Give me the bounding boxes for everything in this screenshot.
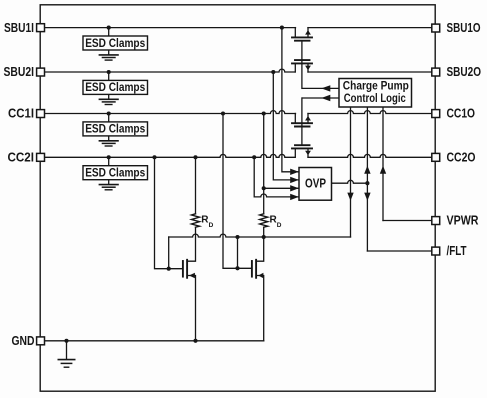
- pass FET M1 drain lead: [294, 28, 296, 38]
- ESD Clamps box 4: [83, 166, 148, 180]
- ESD clamp 4 stub: [108, 157, 110, 165]
- svg-text:CC1O: CC1O: [447, 107, 476, 121]
- ground symbol under ESD clamp 3: [99, 136, 119, 146]
- svg-text:D: D: [277, 222, 282, 229]
- wire SBU2I input (hump over vertical A): [41, 69, 296, 72]
- transistor Q1 source lead: [187, 276, 195, 341]
- wire SBU2O output: [308, 71, 431, 73]
- svg-text:ESD Clamps: ESD Clamps: [85, 166, 145, 180]
- ground symbol at GND pin: [58, 341, 76, 367]
- vertical H: charge pump / OVP output down to /FLT: [366, 107, 368, 251]
- svg-text:ESD Clamps: ESD Clamps: [85, 36, 145, 50]
- arrowhead left on CC gate drive line: [321, 95, 330, 101]
- pin SBU2O: [432, 68, 440, 76]
- arrow on Q1 source (NMOS): [189, 273, 195, 278]
- svg-text:SBU1I: SBU1I: [4, 21, 34, 35]
- vertical D: CC2I tap to OVP input 4 (hump over C): [254, 157, 299, 197]
- junction dot CC1I/vertical C: [262, 111, 266, 115]
- wire CC2O output (humps over verticals G,H,I): [308, 154, 431, 157]
- pass FET M2 channel bar: [292, 62, 312, 64]
- Q1 gate to line A vertical: [168, 237, 170, 269]
- svg-text:VPWR: VPWR: [447, 214, 479, 228]
- label RD2: [270, 214, 282, 229]
- arrow up on M3 source: [305, 116, 311, 121]
- IC boundary box: [40, 5, 435, 391]
- charge pump output line to SBU gates: [302, 87, 339, 89]
- vertical A: SBU1I tap to OVP input 1: [282, 28, 299, 172]
- ESD clamp 2 stub: [108, 72, 110, 80]
- pin CC2O: [432, 153, 440, 161]
- vertical I: VPWR up to charge pump: [382, 107, 384, 220]
- ground symbol under ESD clamp 1: [99, 50, 119, 60]
- arrowhead into OVP input 2: [290, 177, 299, 183]
- SBU gate drive vertical (M1,M2 gates to charge pump): [301, 41, 303, 89]
- svg-text:ESD Clamps: ESD Clamps: [85, 122, 145, 136]
- svg-text:ESD Clamps: ESD Clamps: [85, 80, 145, 94]
- CC gate drive vertical (charge pump to M3,M4 gates): [301, 98, 303, 145]
- pin SBU1I: [37, 24, 45, 32]
- svg-text:CC1I: CC1I: [8, 107, 34, 121]
- svg-text:SBU1O: SBU1O: [447, 21, 481, 35]
- junction dot CC1I/ESD3: [107, 111, 111, 115]
- resistor RD1 top lead from CC2I: [195, 157, 197, 214]
- wire CC1O output (humps over verticals G,H,I): [308, 111, 431, 114]
- junction dot CC2I/ESD4: [107, 155, 111, 159]
- junction dot CC2I/vertical D: [252, 155, 256, 159]
- junction dot line A / RD2: [262, 235, 266, 239]
- pass FET M4 gate bar: [295, 144, 310, 146]
- wire VPWR: [383, 220, 431, 222]
- arrowhead into OVP input 4: [290, 194, 299, 200]
- vertical E: CC2I tap to Q1 gate line: [155, 157, 183, 268]
- ground symbol under ESD clamp 2: [99, 94, 119, 104]
- pass FET M4 source lead: [307, 148, 309, 157]
- junction dot SBU1I/vertical A: [280, 26, 284, 30]
- junction dot Q2 gate line: [235, 266, 239, 270]
- junction dot Q1 gate line: [167, 267, 171, 271]
- vertical G: charge pump to pulldown node (line A): [350, 107, 352, 237]
- ground symbol under ESD clamp 4: [99, 180, 119, 190]
- pin CC2I: [37, 153, 45, 161]
- junction dot CC2I/RD1: [193, 155, 197, 159]
- vertical F: CC1I tap to Q2 gate line: [223, 114, 251, 269]
- resistor RD1 bottom lead to Q1 drain: [187, 227, 195, 261]
- svg-text:SBU2O: SBU2O: [447, 65, 482, 79]
- OVP output wire (hump over vertical G, joins vertical H): [332, 180, 368, 183]
- wire SBU1I input: [41, 27, 296, 29]
- line A: pulldown drain rail (humps over RD1 lead and vertical F): [169, 234, 351, 237]
- resistor RD1 zigzag: [192, 214, 200, 227]
- arrow down on vertical H: [364, 193, 370, 201]
- pass FET M3 source lead: [307, 114, 309, 124]
- vertical B: SBU2I tap to OVP input 2: [273, 72, 299, 180]
- pin SBU2I: [37, 68, 45, 76]
- junction dot CC1I/vertical F: [221, 111, 225, 115]
- charge pump output line to CC gates: [302, 97, 339, 99]
- junction dot CC2I/vertical E: [152, 155, 156, 159]
- vertical C: CC1I tap down to OVP input 3 and resistor RD2: [263, 114, 265, 214]
- pin VPWR: [432, 217, 440, 225]
- arrow down on M2 source: [305, 66, 311, 71]
- junction dot GND/Q1 source: [193, 339, 197, 343]
- arrowhead into OVP input 3: [290, 185, 299, 191]
- svg-text:SBU2I: SBU2I: [4, 65, 35, 79]
- Q2 gate to line A vertical: [237, 237, 239, 268]
- transistor Q2 channel bar: [255, 260, 257, 278]
- pass FET M2 source lead: [307, 63, 309, 72]
- arrowhead into OVP input 1: [290, 169, 299, 175]
- svg-text:/FLT: /FLT: [447, 244, 467, 258]
- arrow up on vertical H below CC2O: [364, 166, 370, 174]
- svg-text:GND: GND: [12, 334, 35, 348]
- ESD Clamps box 1: [83, 36, 148, 50]
- resistor RD2 bottom lead to line A and Q2 drain: [256, 227, 264, 261]
- pass FET M2 drain lead: [294, 63, 296, 72]
- pass FET M3 gate bar: [295, 126, 310, 128]
- svg-text:Control Logic: Control Logic: [344, 91, 406, 105]
- transistor Q2 gate bar: [251, 261, 253, 277]
- transistor Q2 source lead: [256, 276, 264, 341]
- wire GND rail: [41, 340, 264, 342]
- wire CC2I input (humps over verticals F,C,B,A): [41, 154, 296, 157]
- arrow down on M4 source: [305, 151, 311, 156]
- junction dot SBU2I/vertical B: [271, 70, 275, 74]
- pass FET M3 drain lead: [294, 114, 296, 124]
- pin /FLT: [432, 247, 440, 255]
- OVP input 3 branch: [264, 187, 299, 189]
- pin CC1I: [37, 110, 45, 118]
- pass FET M4 channel bar: [292, 147, 312, 149]
- transistor Q1 gate bar: [182, 261, 184, 277]
- svg-text:D: D: [209, 222, 214, 229]
- arrowhead left on SBU gate drive line: [321, 85, 330, 91]
- junction dot SBU2I/ESD2: [107, 70, 111, 74]
- OVP block: [299, 168, 332, 201]
- arrow on Q2 source (NMOS): [258, 273, 263, 278]
- ESD clamp 1 stub: [108, 28, 110, 36]
- svg-text:CC2I: CC2I: [8, 151, 35, 165]
- junction dot OVP output / vertical H: [365, 181, 369, 185]
- pin SBU1O: [432, 24, 440, 32]
- pass FET M1 source lead: [307, 28, 309, 38]
- wire SBU1O output: [308, 27, 431, 29]
- pin CC1O: [432, 110, 440, 118]
- junction dot line A / Q2 gate vertical: [235, 235, 239, 239]
- svg-text:CC2O: CC2O: [447, 151, 476, 165]
- charge pump control logic box U2: [339, 79, 412, 108]
- transistor Q1 channel bar: [186, 260, 188, 278]
- ESD Clamps box 3: [83, 122, 148, 136]
- wire /FLT: [367, 250, 431, 252]
- arrow down on vertical G: [347, 193, 353, 201]
- wire CC1I input (humps over verticals B,A): [41, 111, 296, 114]
- pass FET M1 channel bar: [292, 36, 312, 38]
- pass FET M4 drain lead: [294, 148, 296, 157]
- junction dot SBU1I/ESD1: [107, 26, 111, 30]
- arrow up on vertical I below CC2O: [380, 166, 386, 174]
- arrow up on M1 source: [305, 30, 311, 35]
- junction dot vertical C / OVP input 3: [262, 186, 266, 190]
- label RD1: [201, 214, 213, 229]
- pass FET M3 channel bar: [292, 122, 312, 124]
- svg-text:OVP: OVP: [305, 176, 326, 190]
- pin GND: [37, 337, 45, 345]
- resistor RD2 zigzag: [260, 214, 268, 227]
- ESD Clamps box 2: [83, 80, 148, 94]
- pass FET M1 gate bar: [295, 40, 310, 42]
- pass FET M2 gate bar: [295, 59, 310, 61]
- junction dot GND/ground symbol: [64, 339, 68, 343]
- ESD clamp 3 stub: [108, 114, 110, 122]
